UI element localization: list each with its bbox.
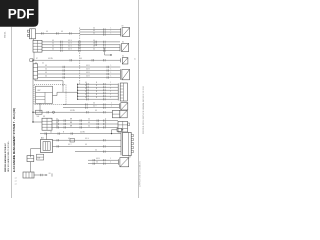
svg-text:0.5: 0.5	[85, 97, 87, 99]
svg-text:0.5 G: 0.5 G	[68, 46, 73, 48]
svg-text:S44: S44	[37, 116, 40, 118]
svg-text:NEW HOLLAND KOBELCO E215B +: NEW HOLLAND KOBELCO E215B +	[7, 140, 10, 172]
svg-text:1: 1	[111, 65, 112, 67]
svg-text:30A: 30A	[37, 156, 40, 159]
svg-text:BR: BR	[70, 125, 73, 127]
svg-text:B: B	[96, 94, 97, 96]
svg-text:2: 2	[110, 94, 111, 96]
svg-text:0.5: 0.5	[56, 122, 58, 124]
svg-text:2: 2	[110, 82, 111, 84]
svg-text:0.5: 0.5	[88, 119, 90, 121]
svg-text:2: 2	[110, 161, 111, 163]
svg-text:0.5: 0.5	[93, 32, 95, 34]
svg-text:0.5: 0.5	[93, 102, 95, 104]
svg-text:0.5: 0.5	[85, 94, 87, 96]
svg-text:0.5: 0.5	[46, 31, 48, 33]
svg-text:12: 12	[134, 58, 136, 60]
svg-text:0.5: 0.5	[93, 46, 95, 48]
svg-text:G: G	[105, 122, 107, 124]
svg-text:PDF: PDF	[8, 6, 34, 21]
svg-text:0.5: 0.5	[85, 88, 87, 90]
svg-text:0.5 G: 0.5 G	[68, 49, 73, 51]
svg-text:0.5 B: 0.5 B	[96, 158, 100, 160]
svg-text:B: B	[96, 82, 97, 84]
svg-text:0.5: 0.5	[95, 110, 97, 112]
svg-text:1: 1	[111, 32, 112, 34]
svg-text:0.5 B: 0.5 B	[86, 65, 90, 67]
svg-text:0.5: 0.5	[80, 58, 82, 60]
svg-text:2: 2	[110, 85, 111, 87]
svg-text:G: G	[105, 125, 107, 127]
svg-text:PRINTED FROM SERVICE MANUAL 84: PRINTED FROM SERVICE MANUAL 84299102 10 …	[142, 86, 145, 134]
svg-text:BR: BR	[70, 119, 73, 121]
svg-text:G1: G1	[49, 173, 51, 175]
svg-text:0.5: 0.5	[88, 122, 90, 124]
svg-text:BR: BR	[70, 122, 73, 124]
svg-text:B: B	[96, 85, 97, 87]
svg-text:0.5 B: 0.5 B	[86, 75, 90, 77]
svg-text:S7: S7	[36, 58, 38, 60]
svg-text:1: 1	[110, 158, 111, 160]
svg-text:X9: X9	[122, 26, 124, 28]
svg-text:8: 8	[130, 157, 131, 159]
svg-text:0.5 B: 0.5 B	[86, 72, 90, 74]
svg-text:0.5 G: 0.5 G	[68, 43, 73, 45]
svg-text:2: 2	[110, 91, 111, 93]
svg-text:a1: a1	[15, 178, 17, 180]
svg-text:0.5 G: 0.5 G	[85, 138, 90, 140]
svg-text:0.5 G: 0.5 G	[68, 40, 73, 42]
svg-text:0.5: 0.5	[45, 72, 47, 74]
svg-text:2: 2	[110, 97, 111, 99]
svg-text:B: B	[96, 88, 97, 90]
svg-text:1: 1	[111, 30, 112, 32]
svg-text:0.5: 0.5	[52, 40, 54, 42]
svg-text:0.5 B: 0.5 B	[86, 68, 90, 70]
svg-text:B: B	[96, 97, 97, 99]
svg-text:2: 2	[110, 88, 111, 90]
svg-text:0.5: 0.5	[52, 43, 54, 45]
svg-text:0.5: 0.5	[56, 125, 58, 127]
svg-text:1: 1	[111, 27, 112, 29]
svg-text:0.5: 0.5	[45, 65, 47, 67]
svg-text:2: 2	[111, 105, 112, 107]
svg-text:1: 1	[111, 72, 112, 74]
svg-text:G: G	[105, 119, 107, 121]
svg-text:0.5: 0.5	[88, 125, 90, 127]
svg-text:0.5 BN: 0.5 BN	[48, 58, 53, 60]
svg-text:0.5: 0.5	[85, 82, 87, 84]
svg-text:0.5 Y: 0.5 Y	[68, 144, 71, 146]
svg-text:B: B	[63, 131, 64, 133]
svg-text:E.3.D ENGINE MANAGEMENT SYSTEM: E.3.D ENGINE MANAGEMENT SYSTEM T - 16.2 …	[12, 108, 16, 172]
svg-text:0.5 BN: 0.5 BN	[70, 110, 75, 112]
svg-text:0.5: 0.5	[56, 119, 58, 121]
svg-text:X1: X1	[122, 56, 124, 58]
svg-text:0.5: 0.5	[52, 49, 54, 51]
svg-text:0.5: 0.5	[93, 43, 95, 45]
svg-text:0.5: 0.5	[85, 85, 87, 87]
svg-text:0.5: 0.5	[93, 49, 95, 51]
svg-text:0.5: 0.5	[85, 91, 87, 93]
svg-text:0.5: 0.5	[45, 68, 47, 70]
svg-text:B: B	[96, 91, 97, 93]
svg-text:0.5: 0.5	[68, 138, 70, 140]
svg-text:0.5: 0.5	[96, 161, 98, 163]
svg-text:1: 1	[111, 75, 112, 77]
svg-text:X3: X3	[35, 62, 37, 64]
svg-text:0.5: 0.5	[85, 144, 87, 146]
svg-text:0.5: 0.5	[93, 27, 95, 29]
svg-text:0.5: 0.5	[93, 30, 95, 32]
svg-text:0.5: 0.5	[61, 31, 63, 33]
svg-text:C2: C2	[42, 62, 44, 64]
svg-text:S8: S8	[43, 116, 45, 118]
svg-text:0.5: 0.5	[45, 75, 47, 77]
svg-text:COPYRIGHT 2010 CNH GLOBAL N.V.: COPYRIGHT 2010 CNH GLOBAL N.V.	[139, 161, 142, 187]
svg-text:B 4 2 L: B 4 2 L	[4, 32, 6, 38]
svg-text:K67: K67	[38, 90, 41, 92]
svg-text:A21: A21	[41, 137, 44, 140]
svg-text:0.5: 0.5	[52, 46, 54, 48]
svg-text:0.5: 0.5	[95, 149, 97, 151]
svg-text:1: 1	[111, 102, 112, 104]
svg-text:0.5 Y: 0.5 Y	[93, 105, 96, 107]
svg-text:1: 1	[111, 68, 112, 70]
svg-text:0.5: 0.5	[93, 40, 95, 42]
svg-text:a1: a1	[15, 184, 17, 186]
svg-text:0.5 BN: 0.5 BN	[80, 131, 85, 133]
svg-text:X2: X2	[122, 41, 124, 43]
svg-text:WIRING MANUAL E215B LC: WIRING MANUAL E215B LC	[4, 143, 7, 172]
svg-text:a1: a1	[15, 181, 17, 183]
svg-text:0.5: 0.5	[50, 131, 52, 133]
